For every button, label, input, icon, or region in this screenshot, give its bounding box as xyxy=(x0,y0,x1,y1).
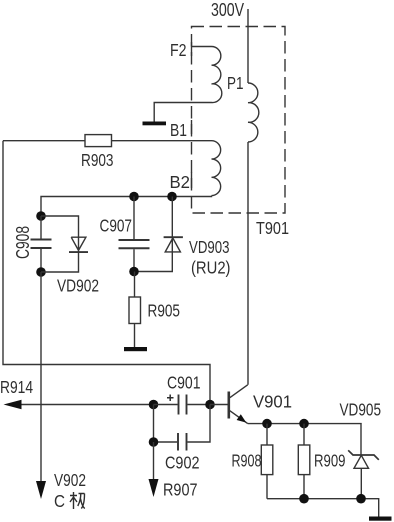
capacitor C907 xyxy=(133,197,135,272)
svg-text:R903: R903 xyxy=(81,150,114,170)
junction dot C908 top xyxy=(36,211,46,221)
junction dot bottom/R909 xyxy=(299,494,309,504)
resistor R903 xyxy=(85,135,112,147)
svg-text:V902: V902 xyxy=(54,470,86,490)
svg-text:C: C xyxy=(54,491,65,511)
resistor R909 xyxy=(303,424,305,499)
svg-text:T901: T901 xyxy=(256,218,289,238)
junction dot B2/VD903 xyxy=(167,192,177,202)
arrow to R914 xyxy=(4,400,22,410)
resistor R908 xyxy=(266,424,268,499)
svg-text:V901: V901 xyxy=(253,392,292,412)
junction dot C901 right / base xyxy=(205,400,215,410)
junction dot C902/R907 xyxy=(149,437,159,447)
diode VD902 xyxy=(41,216,86,272)
wire B2 rail xyxy=(41,196,212,216)
capacitor C902 xyxy=(154,405,211,443)
winding B1-B2 xyxy=(212,141,221,196)
junction dot C907/R905 xyxy=(129,267,139,277)
capacitor C901 xyxy=(154,404,211,406)
svg-text:R907: R907 xyxy=(163,480,198,500)
svg-text:VD902: VD902 xyxy=(57,276,99,296)
diode VD905 (zener) xyxy=(354,424,369,499)
junction dot bottom/VD905 xyxy=(356,494,366,504)
transformer T901 dashed box xyxy=(192,27,286,214)
svg-text:C902: C902 xyxy=(165,453,200,473)
svg-text:300V: 300V xyxy=(211,0,244,20)
arrow to V902 collector xyxy=(36,481,46,499)
wire base xyxy=(210,404,229,406)
svg-text:C907: C907 xyxy=(100,216,133,236)
svg-text:C908: C908 xyxy=(12,226,33,259)
wire to R914 xyxy=(20,404,154,406)
svg-text:R905: R905 xyxy=(148,301,181,321)
svg-text:P1: P1 xyxy=(227,73,244,93)
wire 300V feed to collector xyxy=(247,9,249,385)
diode VD903 xyxy=(134,197,180,272)
winding F2-top (filament) xyxy=(154,47,222,122)
capacitor C908 xyxy=(40,216,42,272)
junction dot emitter/R908 xyxy=(262,419,272,429)
wire feedback left rail xyxy=(3,141,210,405)
wire to R907 xyxy=(153,442,155,480)
svg-text:B1: B1 xyxy=(170,120,187,140)
ground (bottom right) xyxy=(369,517,392,521)
wire emitter rail xyxy=(248,423,361,425)
svg-text:F2: F2 xyxy=(170,40,187,60)
resistor R905 xyxy=(134,272,136,348)
transistor V901 xyxy=(228,392,231,419)
svg-text:R909: R909 xyxy=(314,451,346,471)
junction dot B2/C907 xyxy=(129,192,139,202)
wire R903 net (left rail to winding B1) xyxy=(3,140,212,142)
svg-text:VD905: VD905 xyxy=(340,400,382,420)
svg-text:R908: R908 xyxy=(232,451,262,471)
svg-text:(RU2): (RU2) xyxy=(191,258,231,278)
terminal B2 tick xyxy=(191,172,193,188)
capacitor C901 polarity + xyxy=(167,395,174,402)
junction dot C901 left xyxy=(149,400,159,410)
terminal F2 tick xyxy=(191,42,193,56)
junction dot emitter/R909 xyxy=(299,419,309,429)
svg-text:C901: C901 xyxy=(167,373,201,393)
svg-text:B2: B2 xyxy=(170,172,191,192)
ground (below R905) xyxy=(124,347,147,351)
ground (filament winding) xyxy=(143,122,167,126)
winding P1 (primary) xyxy=(248,83,259,142)
arrow to R907 xyxy=(149,479,159,497)
wire V902 collector line xyxy=(40,272,42,482)
terminal B1 tick xyxy=(191,120,193,134)
junction dot C908 bottom xyxy=(36,267,46,277)
wire bottom rail xyxy=(267,499,379,517)
svg-text:R914: R914 xyxy=(0,377,33,397)
svg-text:VD903: VD903 xyxy=(189,237,230,257)
